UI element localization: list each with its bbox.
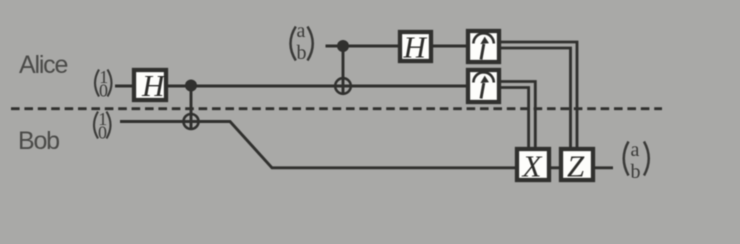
wire H1 to meter M2 xyxy=(166,85,468,88)
wire Alice ket to gate H1 xyxy=(115,85,134,88)
control dot CNOT2 xyxy=(337,40,349,52)
classical double wire from M1 to gate Z xyxy=(499,42,577,147)
svg-text:0: 0 xyxy=(98,123,107,143)
svg-text:H: H xyxy=(141,68,166,103)
svg-text:b: b xyxy=(297,42,307,64)
control dot CNOT1 xyxy=(185,80,197,92)
svg-text:0: 0 xyxy=(99,81,108,101)
vertical control wire CNOT1 xyxy=(190,86,193,129)
svg-text:Alice: Alice xyxy=(19,51,67,79)
svg-text:b: b xyxy=(631,161,641,183)
Bob wire: from ket, bend down, to gate X xyxy=(120,122,517,168)
svg-text:X: X xyxy=(521,149,543,184)
ket input (a b) top xyxy=(291,20,313,64)
vertical control wire CNOT2 xyxy=(342,46,345,94)
svg-text:Z: Z xyxy=(567,149,585,184)
wire X to Z xyxy=(549,166,561,169)
wire Z to output ket xyxy=(595,166,613,169)
ket output (a b) xyxy=(624,139,649,183)
svg-text:H: H xyxy=(403,30,428,65)
target XOR CNOT2 xyxy=(335,78,351,94)
svg-text:a: a xyxy=(631,139,640,161)
ket input (1 0) Alice xyxy=(95,67,112,101)
ket input (1 0) Bob xyxy=(94,109,111,143)
dashed boundary line between Alice and Bob xyxy=(11,107,662,110)
svg-text:Bob: Bob xyxy=(18,127,59,155)
wire top: ket to gate H2 xyxy=(326,45,401,48)
classical double wire from M2 to gate X xyxy=(499,82,535,148)
measurement meter M1 xyxy=(468,31,499,62)
gate X box xyxy=(517,149,549,184)
gate Z box xyxy=(561,149,593,184)
svg-text:a: a xyxy=(297,20,306,42)
target XOR CNOT1 xyxy=(184,114,199,129)
gate H2 box xyxy=(400,30,431,65)
measurement meter M2 xyxy=(468,70,499,102)
gate H1 box xyxy=(134,68,166,103)
wire H2 to meter M1 xyxy=(433,45,468,48)
